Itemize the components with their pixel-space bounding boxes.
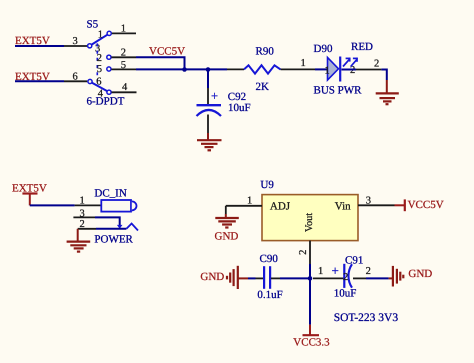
pin 1 stub wire [112,32,136,34]
svg-text:5: 5 [121,60,126,71]
svg-text:1: 1 [121,24,126,35]
svg-text:RED: RED [351,41,373,53]
ground symbol right (rotated) [393,266,403,287]
C92 curved plate [197,110,222,116]
wire EXT5V to DC_IN pin 1 [30,204,75,206]
S5 pole B pivot contact [88,79,92,83]
svg-text:1: 1 [80,196,85,207]
wire EXT5V to S5 pin 3 [15,45,64,47]
pin 4 stub [112,91,137,93]
svg-text:5: 5 [97,64,102,75]
DC_IN switch caret [126,224,138,231]
S5 contact pin 2 [107,55,111,59]
wire gnd to C90 [248,277,256,279]
svg-text:D90: D90 [314,43,333,55]
wire Vout down [309,264,311,278]
svg-text:10uF: 10uF [228,102,251,114]
svg-text:+: + [332,263,339,278]
R90 pin 2 [281,68,316,70]
pin 6 of S5 [64,80,87,82]
svg-text:6-DPDT: 6-DPDT [87,96,125,108]
svg-text:3: 3 [80,208,85,219]
svg-text:2: 2 [80,219,85,230]
ground symbol POWER [67,242,91,252]
wire pin2 to corner [136,57,185,69]
svg-text:1: 1 [98,30,103,41]
svg-text:1: 1 [247,195,252,206]
S5 dashed link line [96,43,98,81]
capacitor C90 plate 1 [263,266,265,289]
resistor R90 pin 1 [227,68,244,70]
DC_IN pin 3 [73,216,95,218]
svg-text:1: 1 [325,66,330,77]
wire C90 to junction [271,277,280,279]
svg-text:Vin: Vin [335,200,351,212]
C92 pin 2 [207,115,209,134]
U9 pin 1 (ADJ) [226,205,262,207]
ground stem top-right [386,80,388,93]
ground stem right [389,277,393,279]
U9 pin 3 (Vin) [358,204,395,206]
svg-text:GND: GND [215,230,239,242]
pin 5 stub [111,68,136,70]
ground symbol top-right [376,93,399,104]
regulator U9 body [262,195,358,241]
svg-text:1: 1 [318,266,323,277]
svg-text:S5: S5 [87,19,99,31]
capacitor C92 pin 1 [207,88,209,105]
DC_IN pin 2 [78,228,96,230]
ground symbol left (rotated) [227,266,238,289]
C92 top plate [197,104,222,106]
wire R90 to D90 [315,68,328,70]
D90 pin 2 [356,69,381,71]
wire junction to C92 [207,70,209,89]
ground stem left [238,277,248,279]
svg-text:3: 3 [366,195,371,206]
capacitor C91 curved plate [348,264,352,288]
D90 cathode bar [339,57,341,82]
svg-text:GND: GND [200,271,224,283]
svg-text:VCC3.3: VCC3.3 [293,336,330,348]
svg-text:C90: C90 [260,253,279,265]
ground symbol GND U9 [215,218,239,228]
svg-text:+: + [211,89,218,103]
svg-text:4: 4 [122,82,128,93]
svg-text:2K: 2K [256,81,270,93]
svg-text:DC_IN: DC_IN [94,187,126,199]
S5 contact pin 4 [107,90,111,94]
wire D90 cathode [342,69,357,71]
svg-text:VCC5V: VCC5V [408,199,444,211]
power port VCC5V stem [395,204,405,206]
svg-text:C91: C91 [345,255,363,267]
svg-text:R90: R90 [256,45,275,57]
junction C92 tap [206,67,211,72]
svg-text:6: 6 [73,71,78,82]
svg-text:2: 2 [298,250,309,255]
LED arrow 1 [343,58,350,67]
wire to ground corner [381,70,386,81]
junction Vout node [308,276,313,281]
S5 contact pin 5 [107,67,111,71]
VCC5V port bar [404,199,406,211]
pin 2 stub [111,56,136,58]
resistor R90 body [244,65,281,73]
DC_IN pin 1 [75,204,102,206]
wire EXT5V to S5 pin 6 [15,80,64,82]
S5 pole A pivot contact [88,44,92,48]
svg-text:Vout: Vout [304,213,315,232]
power port VCC3.3 stem [309,325,311,335]
capacitor C91 straight plate [343,264,345,288]
svg-text:1: 1 [301,58,306,69]
ground symbol under C92 [197,140,222,150]
wire junction down [309,278,311,324]
svg-text:SOT-223 3V3: SOT-223 3V3 [334,312,399,324]
wire pin5 to R90 [136,68,227,70]
C91 pin 2 wire [353,277,366,279]
C91 pin 1 [313,277,345,279]
svg-text:2: 2 [97,53,102,64]
svg-text:ADJ: ADJ [270,200,291,212]
arrow head [117,225,123,229]
svg-text:3: 3 [73,36,78,47]
ground stem at C92 [207,133,209,140]
S5 pole B arm [92,83,107,91]
junction VCC5V [182,67,187,72]
S5 throw contact pin 1 [107,31,111,35]
diode D90 triangle [328,58,339,81]
svg-text:2: 2 [121,48,126,59]
EXT5V port stem [29,194,31,206]
ground stem POWER [77,229,79,241]
svg-text:VCC5V: VCC5V [149,45,185,57]
svg-text:2: 2 [374,59,379,70]
svg-text:GND: GND [408,268,432,280]
svg-text:2: 2 [366,266,371,277]
DC_IN body [101,200,136,212]
S5 pole A arm [92,35,108,45]
GND stem at U9 [225,206,227,214]
U9 pin 2 (Vout) [309,241,311,264]
wire pin 3 to switch arrow [95,217,120,226]
capacitor C90 plate 2 [269,266,271,289]
svg-text:10uF: 10uF [334,288,357,300]
svg-text:2: 2 [343,272,348,283]
svg-text:POWER: POWER [94,233,133,245]
VCC3.3 port bar [303,334,320,336]
wire pin 2 [96,228,126,230]
svg-text:U9: U9 [260,179,274,191]
LED arrow 2 [351,58,358,67]
EXT5V port bar [22,192,37,194]
pin 3 of S5 [64,45,87,47]
svg-text:0.1uF: 0.1uF [257,289,282,301]
svg-text:BUS PWR: BUS PWR [314,84,363,96]
